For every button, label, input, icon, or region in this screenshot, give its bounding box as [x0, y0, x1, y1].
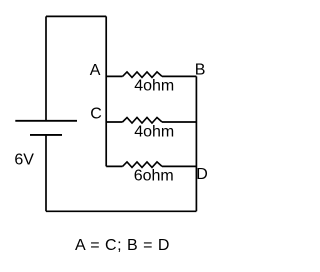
label: R2 value 4ohm [134, 123, 174, 140]
wire: branch 3 left lead [106, 165, 122, 167]
battery B1 negative plate (short) [30, 134, 62, 136]
label: battery value 6V [14, 152, 34, 169]
note: node equivalence caption A = C; B = D [75, 237, 170, 254]
svg-text:A: A [90, 62, 101, 79]
svg-text:A = C; B = D: A = C; B = D [75, 237, 170, 254]
wire: right node rail B-D [195, 76, 197, 211]
node B [195, 62, 206, 79]
svg-text:D: D [196, 166, 208, 183]
wire: branch 1 right lead [162, 75, 196, 77]
svg-text:4ohm: 4ohm [134, 123, 174, 140]
resistor R1 zigzag [123, 72, 163, 78]
svg-text:4ohm: 4ohm [134, 78, 174, 95]
svg-text:6V: 6V [14, 152, 34, 169]
svg-text:C: C [90, 106, 102, 123]
label: R1 value 4ohm [134, 78, 174, 95]
svg-text:6ohm: 6ohm [134, 167, 174, 184]
wire: battery negative lead down left side [45, 135, 47, 211]
battery B1 positive plate (long) [15, 120, 77, 122]
wire: branch 2 left lead [106, 121, 122, 123]
node C [90, 106, 102, 123]
wire: branch 3 right lead [162, 165, 196, 167]
wire: bottom return [46, 210, 196, 212]
node A [90, 62, 101, 79]
wire: branch 1 left lead [106, 75, 122, 77]
wire: branch 2 right lead [162, 121, 196, 123]
resistor R3 zigzag [123, 162, 163, 168]
wire: top from battery + to left node rail [46, 15, 106, 17]
resistor R2 zigzag [123, 118, 163, 124]
wire: battery positive lead up left side [45, 16, 47, 120]
label: R3 value 6ohm [134, 167, 174, 184]
node D [196, 166, 208, 183]
wire: left node rail A-C [105, 16, 107, 166]
